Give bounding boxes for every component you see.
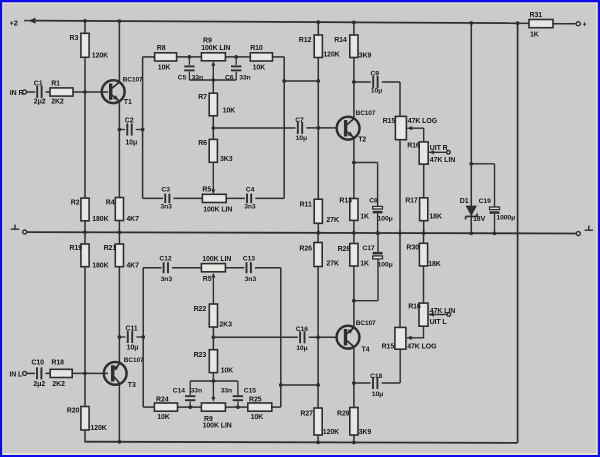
svg-text:R24: R24: [156, 397, 169, 404]
junction right rail lower: [279, 383, 283, 387]
wire R16 lower to R30: [423, 266, 425, 303]
wire left rail to C12: [143, 267, 161, 269]
svg-text:2K2: 2K2: [52, 381, 65, 388]
svg-text:R2: R2: [71, 199, 80, 206]
wire left rail to R24: [143, 406, 154, 408]
capacitor C7 10u: [298, 122, 302, 134]
svg-text:C15: C15: [244, 388, 256, 395]
svg-text:33n: 33n: [191, 388, 202, 395]
junction: [118, 19, 122, 23]
wire R25 to right rail: [272, 406, 281, 408]
wire R30 to ground rail: [423, 233, 425, 243]
wire left rail to C3: [143, 197, 163, 199]
wire R15 wiper to R16: [407, 127, 424, 129]
wire R21 to ground rail: [118, 232, 120, 244]
wire network right rail: [283, 57, 285, 199]
wire emitter to C8: [354, 162, 378, 164]
svg-text:R23: R23: [194, 352, 207, 359]
svg-text:BC107: BC107: [356, 110, 376, 117]
wire collector to C18: [354, 382, 371, 384]
wire R18 to T3 base: [72, 372, 108, 374]
svg-text:1K: 1K: [360, 261, 369, 268]
wire D1 to ground rail: [470, 216, 472, 233]
wire to C14: [189, 381, 191, 395]
wire R15 lower wiper to R16 lower: [407, 326, 424, 338]
svg-text:R14: R14: [334, 37, 347, 44]
svg-text:C1: C1: [34, 81, 43, 88]
wire wiper to R22: [212, 274, 214, 304]
svg-text:C13: C13: [243, 256, 255, 263]
svg-text:BC107: BC107: [356, 320, 376, 327]
resistor R28: [350, 244, 358, 267]
junction: [376, 231, 380, 235]
supply arrow: [24, 20, 30, 22]
svg-text:R22: R22: [194, 306, 207, 313]
transistor T4: [337, 326, 360, 349]
node T1 base: [83, 90, 87, 94]
potentiometer R16 upper: [419, 142, 428, 164]
junction: [118, 231, 122, 235]
wire emitter to C2: [119, 129, 125, 131]
svg-text:120K: 120K: [92, 53, 108, 60]
wire R16 lower wiper to UIT L terminal: [429, 314, 447, 316]
wire feedback link: [284, 80, 318, 82]
svg-text:R12: R12: [299, 37, 312, 44]
wire R28 to T4 emitter: [353, 266, 355, 326]
svg-text:100μ: 100μ: [378, 261, 393, 268]
svg-text:C7: C7: [295, 117, 304, 124]
svg-text:C19: C19: [479, 198, 491, 205]
wire to R16 top: [423, 128, 425, 142]
svg-text:10μ: 10μ: [296, 345, 307, 352]
svg-text:C17: C17: [362, 245, 374, 252]
wire R14 to T2 collector: [353, 58, 355, 118]
svg-text:R7: R7: [198, 94, 207, 101]
wire R5 to C4: [226, 197, 245, 199]
wire R27 to bottom rail: [317, 435, 319, 442]
resistor R1: [50, 88, 73, 96]
svg-text:120K: 120K: [323, 429, 339, 436]
potentiometer R9 lower: [201, 403, 225, 411]
svg-text:C8: C8: [369, 198, 378, 205]
wire R29 to bottom rail: [353, 435, 355, 443]
resistor R10: [250, 53, 272, 61]
wire R17 to ground rail: [423, 221, 425, 234]
svg-text:10K: 10K: [158, 65, 171, 72]
resistor R8: [155, 53, 177, 61]
resistor R14: [350, 35, 358, 58]
junction: [352, 21, 356, 25]
svg-text:T1: T1: [124, 99, 132, 106]
wire T3 emitter up to R21: [118, 267, 120, 364]
svg-text:R26: R26: [299, 246, 312, 253]
svg-text:100μ: 100μ: [378, 215, 393, 222]
resistor R30: [419, 243, 427, 266]
svg-text:18V: 18V: [473, 216, 486, 223]
wire C17 to ground rail: [377, 233, 379, 252]
wire ground rail to R19: [84, 232, 86, 244]
node tone mid: [211, 126, 215, 130]
wire C5-C6 sub row: [189, 79, 236, 81]
svg-text:R25: R25: [249, 397, 262, 404]
svg-text:R5: R5: [203, 276, 212, 283]
capacitor C2 10u: [127, 124, 131, 136]
svg-text:3n3: 3n3: [244, 204, 256, 211]
wire C1 to R1: [46, 91, 50, 93]
emitter arrow T1: [113, 95, 119, 100]
svg-text:T2: T2: [358, 136, 366, 143]
svg-text:100K LIN: 100K LIN: [203, 423, 232, 430]
capacitor C4 3n3: [247, 194, 251, 204]
wire T3 collector to bottom rail: [118, 383, 120, 442]
wire C14 to bottom row: [189, 402, 191, 408]
capacitor C1 2u2: [37, 86, 41, 98]
wire feedback link lower: [281, 384, 318, 386]
junction: [398, 231, 402, 235]
resistor R4: [115, 198, 123, 221]
wire up to R15 lower bottom: [399, 349, 401, 383]
transistor T3: [104, 362, 127, 385]
wire R7 to R6: [212, 116, 214, 140]
wire C4 to right rail: [255, 197, 284, 199]
svg-text:4K7: 4K7: [126, 262, 139, 269]
svg-text:18K: 18K: [428, 261, 441, 268]
resistor R6: [209, 139, 217, 162]
svg-text:R15: R15: [383, 118, 396, 125]
zener diode D1: [466, 206, 477, 220]
resistor R22: [209, 304, 217, 327]
resistor R13: [350, 199, 358, 221]
junction C14 bottom: [188, 405, 192, 409]
transistor T1: [102, 80, 125, 103]
wire R10 to right rail: [273, 56, 285, 58]
svg-text:3K9: 3K9: [359, 429, 372, 436]
svg-text:10μ: 10μ: [371, 88, 382, 95]
resistor R21: [115, 244, 123, 267]
resistor R7: [209, 93, 217, 116]
wire rail to R3: [84, 21, 86, 33]
wire C9 to R15: [382, 81, 400, 83]
junction emitter / C17: [352, 299, 356, 303]
emitter arrow T3: [113, 365, 119, 370]
wire C8 to ground rail: [377, 213, 379, 233]
svg-text:100K LIN: 100K LIN: [203, 206, 232, 213]
junction: [469, 231, 473, 235]
node T3 emitter / C11: [118, 335, 122, 339]
resistor R26: [314, 243, 322, 267]
wire C12 to pot: [172, 267, 201, 269]
junction: [352, 441, 356, 445]
wire C15 to bottom row: [237, 402, 239, 408]
capacitor C6 33n: [231, 66, 241, 70]
svg-text:3K9: 3K9: [359, 53, 372, 60]
node T2 base: [316, 126, 320, 130]
resistor R17: [420, 198, 428, 221]
svg-text:47K LOG: 47K LOG: [407, 344, 437, 351]
svg-text:100K LIN: 100K LIN: [201, 45, 230, 52]
resistor R31: [529, 20, 553, 28]
wire rail to D1: [470, 23, 472, 206]
svg-text:47K LOG: 47K LOG: [408, 118, 438, 125]
wire ground rail to R26: [317, 233, 319, 243]
R15 wiper arrow: [407, 126, 412, 130]
wire IN L to C10: [27, 372, 35, 374]
svg-text:R3: R3: [70, 35, 79, 42]
svg-text:D1: D1: [460, 198, 469, 205]
svg-text:R20: R20: [67, 408, 80, 415]
svg-text:C4: C4: [246, 186, 255, 193]
svg-text:R10: R10: [250, 45, 263, 52]
junction R9 lower wiper: [212, 379, 216, 383]
junction: [83, 19, 87, 23]
junction left rail / C2: [141, 128, 145, 132]
svg-text:180K: 180K: [92, 262, 108, 269]
terminal ground left: [23, 230, 27, 234]
svg-text:R17: R17: [405, 198, 418, 205]
ground symbol right: [585, 226, 593, 231]
wire bottom supply rail: [84, 442, 517, 443]
svg-text:R19: R19: [69, 245, 82, 252]
capacitor C11 10u: [128, 331, 132, 343]
junction: [316, 441, 320, 445]
potentiometer R5: [202, 194, 226, 202]
R15 lower wiper arrow: [407, 336, 412, 340]
junction: [316, 231, 320, 235]
capacitor C13 3n3: [247, 262, 251, 273]
junction C6 top: [234, 55, 238, 59]
capacitor C8 100u: [373, 206, 383, 213]
terminal ground right: [576, 232, 580, 236]
svg-text:IN R: IN R: [10, 90, 24, 97]
svg-text:C3: C3: [161, 186, 170, 193]
junction: [316, 20, 320, 24]
svg-text:120K: 120K: [90, 425, 106, 432]
wire R15 bottom to ground to lower R15: [399, 140, 401, 328]
wire C10 to R18: [45, 372, 50, 374]
svg-text:C2: C2: [125, 117, 134, 124]
resistor R12: [314, 35, 322, 58]
svg-text:R28: R28: [338, 246, 351, 253]
wire C11 to network: [136, 336, 143, 338]
svg-text:R16: R16: [408, 304, 421, 311]
junction C15 bottom: [236, 405, 240, 409]
resistor R2: [81, 198, 89, 221]
wire R20 to bottom rail: [84, 430, 86, 442]
junction: [422, 231, 426, 235]
svg-text:R1: R1: [51, 81, 60, 88]
wire left rail to R8: [143, 56, 155, 58]
R16 lower wiper arrow: [429, 312, 434, 316]
wire R13 to ground rail: [353, 220, 355, 233]
wire C13 to right rail: [255, 267, 281, 269]
wire R1 to T1 base: [73, 91, 108, 93]
svg-text:R30: R30: [406, 245, 419, 252]
svg-text:47K LIN: 47K LIN: [430, 157, 455, 164]
wire T2 emitter to R13: [353, 138, 355, 199]
wire R19 to R20 through T3 base node: [84, 267, 86, 407]
resistor R25: [248, 403, 272, 411]
potentiometer R5 lower: [201, 264, 225, 272]
resistor R29: [350, 408, 358, 436]
wire R26 to R27: [317, 267, 319, 409]
svg-text:C9: C9: [370, 70, 379, 77]
svg-text:R31: R31: [530, 12, 543, 19]
wire R24 to pot: [178, 406, 202, 408]
wire C7 to T2 base: [306, 127, 337, 129]
wire down to R15 top: [399, 82, 401, 116]
wire C2 to tone network: [136, 129, 143, 131]
junction D1 / C19: [469, 162, 473, 166]
wire right supply link: [517, 23, 519, 443]
capacitor C17 100u: [373, 252, 383, 259]
svg-text:1000μ: 1000μ: [496, 215, 515, 222]
svg-text:4K7: 4K7: [126, 216, 139, 223]
wire T4 collector to R29: [353, 346, 355, 408]
emitter arrow T2: [348, 132, 354, 137]
svg-text:R6: R6: [198, 140, 207, 147]
wire to C15: [237, 381, 239, 395]
svg-text:R9: R9: [203, 38, 212, 45]
wire to C19: [494, 164, 496, 207]
svg-text:+: +: [582, 20, 587, 29]
wire mid node to C16: [213, 336, 298, 338]
svg-text:C10: C10: [31, 360, 44, 367]
junction R9 wiper: [211, 78, 215, 82]
junction R12 column: [316, 79, 320, 83]
svg-text:27K: 27K: [326, 260, 339, 267]
wire T1 emitter down to R4: [118, 101, 120, 198]
wire C6 to wiper line: [235, 72, 237, 80]
wire R6 to R5 wiper: [212, 162, 214, 190]
svg-text:C18: C18: [370, 373, 382, 380]
svg-text:2K2: 2K2: [51, 99, 64, 106]
svg-text:3n3: 3n3: [245, 276, 257, 283]
svg-text:C16: C16: [296, 326, 308, 333]
potentiometer R9: [201, 53, 225, 61]
capacitor C15 33n: [233, 396, 243, 400]
wire top supply rail: [35, 21, 518, 24]
terminal UIT R: [447, 151, 451, 155]
resistor R20: [81, 407, 89, 431]
R5 lower wiper arrow: [211, 273, 215, 278]
svg-text:R4: R4: [106, 199, 115, 206]
terminal + supply input: [576, 22, 580, 26]
potentiometer R16 lower: [419, 303, 428, 326]
wire to C8 top: [377, 163, 379, 207]
svg-text:27K: 27K: [326, 217, 339, 224]
R9 lower wiper arrow: [211, 397, 215, 402]
wire R9 wiper: [212, 63, 214, 80]
wire C5 to wiper line: [188, 72, 190, 80]
svg-text:2μ2: 2μ2: [33, 381, 45, 388]
wire R3 to R2 through T1 base node: [84, 57, 86, 198]
svg-text:10K: 10K: [223, 108, 236, 115]
wire R31 to + terminal: [553, 23, 576, 25]
junction: [469, 21, 473, 25]
junction C5 top: [188, 55, 192, 59]
transistor T2: [337, 117, 360, 140]
wire IN R to C1: [27, 91, 36, 93]
svg-text:33n: 33n: [221, 388, 232, 395]
svg-text:UIT L: UIT L: [430, 319, 448, 326]
svg-text:UIT R: UIT R: [430, 145, 448, 152]
wire D1 node to C19: [471, 163, 494, 165]
wire rail to T1 collector: [118, 21, 120, 82]
svg-text:3n3: 3n3: [161, 276, 173, 283]
svg-text:R18: R18: [51, 360, 64, 367]
resistor R19: [81, 244, 89, 267]
wire to C5: [188, 57, 190, 65]
wire to C6: [235, 57, 237, 65]
potentiometer R15 upper: [395, 116, 406, 139]
resistor R18: [50, 369, 72, 377]
svg-text:R5: R5: [202, 186, 211, 193]
wire C19 to ground rail: [494, 214, 496, 234]
svg-text:100K LIN: 100K LIN: [202, 256, 231, 263]
junction right rail: [282, 79, 286, 83]
svg-text:33n: 33n: [239, 75, 250, 82]
capacitor C14 33n: [185, 396, 195, 400]
svg-text:R8: R8: [157, 45, 166, 52]
wire pot to R25: [225, 406, 247, 408]
wire rail to R14: [353, 22, 355, 35]
svg-text:10K: 10K: [221, 368, 234, 375]
wire network right rail lower: [280, 268, 282, 407]
wire pot to C13: [225, 267, 244, 269]
resistor R23: [209, 350, 217, 373]
capacitor C3 3n3: [165, 194, 169, 204]
svg-text:10K: 10K: [251, 414, 264, 421]
svg-text:R16: R16: [407, 142, 420, 149]
junction: [118, 440, 122, 444]
wire emitter to C11: [119, 336, 125, 338]
junction: [516, 21, 520, 25]
wire network left rail lower: [142, 268, 144, 407]
wire C16 to T4 base: [309, 336, 337, 338]
terminal IN R: [23, 90, 27, 94]
wire R16 wiper to UIT R terminal: [429, 151, 446, 153]
capacitor C12 3n3: [164, 262, 168, 273]
wire to R31: [518, 22, 529, 24]
svg-text:R21: R21: [104, 245, 117, 252]
arrowhead: [29, 18, 36, 24]
wire network left rail: [142, 57, 144, 199]
svg-text:C11: C11: [125, 326, 137, 333]
junction: [493, 232, 497, 236]
node T3 base: [83, 372, 87, 376]
svg-text:10μ: 10μ: [125, 140, 137, 147]
ground symbol left: [11, 225, 19, 230]
wire mid node to C7: [213, 127, 295, 129]
wire ground rail: [27, 232, 577, 233]
junction: [352, 231, 356, 235]
wire to C17 bottom: [377, 259, 379, 301]
node T4 base: [316, 335, 320, 339]
wire R16 to R17: [423, 164, 425, 198]
wire R11 to ground rail: [317, 223, 319, 233]
junction left rail / C11: [141, 335, 145, 339]
capacitor C5 33n: [184, 66, 194, 70]
R16 wiper arrow: [429, 150, 434, 154]
terminal IN L: [23, 371, 27, 375]
svg-text:C5: C5: [178, 75, 187, 82]
svg-text:10μ: 10μ: [296, 135, 307, 142]
junction C9: [352, 80, 356, 84]
svg-text:1K: 1K: [360, 214, 369, 221]
capacitor C18 10u: [373, 377, 377, 389]
wire R4 to ground rail: [118, 221, 120, 233]
svg-text:C14: C14: [173, 388, 185, 395]
